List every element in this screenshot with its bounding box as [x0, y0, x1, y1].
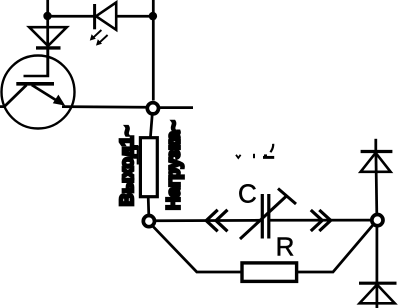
transistor VT1: circle envelope — [2, 56, 75, 129]
wire: top-right stub above diode — [374, 139, 377, 151]
label fragment: VT2 (clipped designator) — [236, 144, 274, 158]
wire: node 2 to capacitor left plate — [156, 219, 262, 222]
wire: load resistor down to node 2 — [147, 197, 150, 216]
transistor VT1: collector lead — [4, 85, 26, 107]
wire: right stub from node 1 — [160, 106, 194, 109]
wire: LED anode to right vertical feed — [116, 15, 153, 18]
svg-text:R: R — [276, 232, 295, 262]
resistor R: horizontal rectangle — [242, 263, 297, 282]
diode VD1: cathode bar — [36, 46, 61, 49]
wire: resistor R to diagonal up to node 3 — [297, 225, 373, 272]
LED HL1: light emission arrow 1 — [93, 30, 102, 38]
node 3: open circle junction (right) — [372, 215, 383, 226]
wire: diagonal node 2 to bottom resistor — [153, 226, 242, 272]
wire: left vertical feed from top edge down into transistor — [46, 0, 49, 77]
wire: right vertical feed from top edge down to node 1 — [152, 0, 155, 101]
wire: capacitor right plate to node 3 — [270, 219, 371, 222]
svg-text:Нагрузка~: Нагрузка~ — [164, 120, 184, 210]
chevron arrows: double arrowheads pointing right — [311, 210, 322, 231]
transistor VT1: base lead (L-shape from diode) — [24, 50, 48, 77]
wire: diode VD2 to node 3 — [375, 152, 379, 215]
chevron arrows: double arrowheads pointing left — [206, 210, 218, 232]
wire: node 3 down to bottom diode — [376, 227, 379, 308]
LED HL1: triangle pointing left — [96, 2, 116, 29]
node 2: open circle junction — [143, 216, 154, 227]
resistor (load, Нагрузка): vertical rectangle — [140, 138, 157, 197]
svg-text:C: C — [238, 179, 257, 209]
diode VD2: triangle pointing up — [361, 153, 391, 172]
transistor VT1: base bar — [16, 82, 54, 86]
diode VD3: triangle pointing up — [360, 285, 395, 304]
wire: horizontal from left junction to LED cathode — [48, 15, 95, 18]
capacitor C: right plate — [267, 194, 270, 239]
wire: left stub at image edge to transistor collector — [0, 105, 5, 108]
wire: emitter to node 1 — [62, 105, 146, 108]
transistor VT1: emitter lead with arrow — [32, 85, 59, 102]
diode VD3 (bottom right): cathode bar — [359, 282, 397, 285]
LED HL1: cathode bar — [93, 4, 96, 29]
node 1: open circle junction — [147, 103, 158, 114]
capacitor C: left plate — [261, 194, 264, 239]
mark: short underline segment beside Выход1 — [137, 146, 139, 165]
diode VD2 (top right): cathode bar — [361, 150, 393, 153]
diode VD1: triangle pointing down (above transistor) — [29, 27, 67, 46]
capacitor C: adjustment diagonal with T-bar — [240, 196, 287, 240]
wire: node 1 down to load resistor — [150, 114, 152, 138]
junction dot: right feed / LED branch — [149, 12, 157, 20]
LED HL1: light emission arrow 2 — [99, 35, 108, 43]
svg-text:Выход1~: Выход1~ — [117, 126, 137, 207]
junction dot: left feed / LED branch — [43, 12, 51, 20]
